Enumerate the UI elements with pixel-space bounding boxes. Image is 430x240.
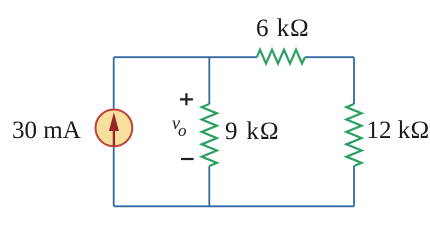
wire right vertical upper (353, 57, 355, 104)
wire middle vertical upper (208, 57, 210, 104)
resistor R2 9 kOhm zigzag (202, 104, 217, 166)
label 30 mA (12, 117, 81, 145)
resistor R1 6 kOhm zigzag (257, 50, 305, 64)
wire right vertical lower (353, 166, 355, 206)
current source I1 circle (96, 110, 133, 147)
minus sign (181, 158, 194, 160)
plus sign (180, 93, 193, 105)
label vo (172, 114, 187, 140)
wire top (114, 56, 257, 58)
label 6 kOhm (256, 15, 309, 43)
wire top right of resistor (305, 56, 354, 58)
label 12 kOhm (367, 117, 430, 145)
current source I1 arrow (113, 130, 115, 146)
wire left vertical (113, 57, 115, 206)
wire bottom (114, 205, 354, 207)
resistor R3 12 kOhm zigzag (346, 104, 361, 166)
label 9 kOhm (225, 118, 280, 146)
wire middle vertical lower (208, 166, 210, 206)
